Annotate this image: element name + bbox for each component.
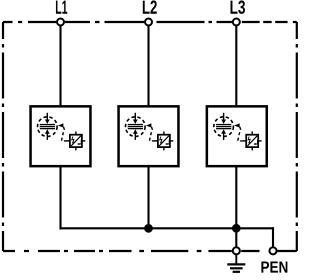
label PEN bbox=[261, 262, 287, 273]
enclosure top border (dash-dot) bbox=[3, 21, 297, 23]
wire bus to earth terminal bbox=[235, 228, 237, 247]
earth terminal bbox=[233, 247, 240, 254]
wire arrester 2 to PEN bus bbox=[147, 166, 149, 228]
wire L3 drop to arrester 3 bbox=[235, 26, 237, 107]
wire arrester 1 to PEN bus bbox=[59, 166, 61, 229]
label L3 bbox=[231, 0, 246, 14]
terminal L3 bbox=[233, 19, 240, 26]
terminal L1 bbox=[57, 19, 64, 26]
surge arrester 1 (spark gap SPD, phase L1) bbox=[31, 106, 91, 166]
ground symbol bbox=[235, 255, 237, 264]
surge arrester 2 (spark gap SPD, phase L2) bbox=[119, 106, 179, 166]
surge arrester 3 (spark gap SPD, phase L3) bbox=[207, 106, 267, 166]
wire L2 drop to arrester 2 bbox=[147, 26, 149, 107]
PEN terminal bbox=[269, 247, 276, 254]
enclosure bottom border (dash-dot) bbox=[3, 250, 297, 252]
wire bus to PEN terminal bbox=[272, 227, 274, 247]
PEN bus wire (horizontal) bbox=[59, 227, 274, 229]
wire L1 drop to arrester 1 bbox=[59, 26, 61, 107]
junction dot at L3/bus bbox=[232, 224, 241, 233]
label L2 bbox=[143, 0, 157, 13]
enclosure left border (dash-dot) bbox=[2, 22, 4, 251]
label L1 bbox=[56, 1, 67, 14]
enclosure right border (dash-dot) bbox=[296, 22, 298, 251]
wire arrester 3 to PEN bus bbox=[235, 166, 237, 228]
junction dot at L2/bus bbox=[144, 224, 153, 233]
terminal L2 bbox=[145, 19, 152, 26]
